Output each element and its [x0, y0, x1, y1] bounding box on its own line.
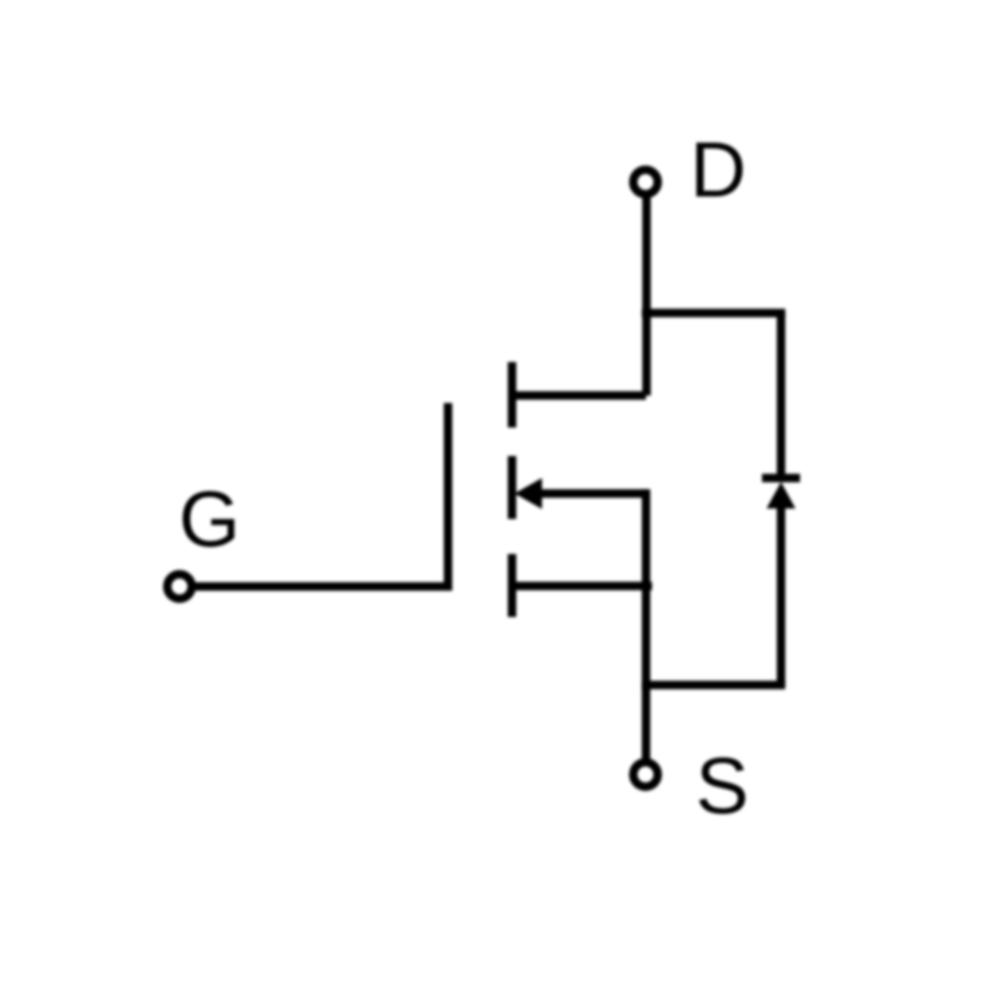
- channel segment (drain side): [508, 362, 517, 428]
- svg-text:G: G: [179, 474, 240, 563]
- wire drain bar connection: [512, 391, 646, 400]
- svg-text:D: D: [690, 126, 746, 214]
- svg-text:S: S: [696, 741, 749, 830]
- gate electrode bar and gate lead wire: [195, 403, 448, 587]
- body arrow head (points to channel): [515, 478, 543, 509]
- wire source node vertical: [642, 494, 651, 686]
- wire bottom return (diode to source node): [646, 681, 781, 690]
- wire D lead (drain vertical down to drain bar): [642, 197, 651, 396]
- diode cathode bar: [762, 474, 800, 483]
- wire drain branch to body diode: [646, 309, 781, 318]
- terminal G (gate pin circle): [167, 574, 191, 598]
- terminal S (source pin circle): [633, 762, 657, 786]
- terminal D (drain pin circle): [633, 170, 657, 194]
- transistor Q1 (N-channel MOSFET): [195, 362, 652, 617]
- channel segment (source side): [508, 554, 517, 617]
- diode anode triangle: [767, 482, 796, 509]
- body arrow line: [538, 489, 646, 498]
- wire body-diode cathode lead: [777, 313, 786, 478]
- wire body-diode anode lead: [777, 508, 786, 685]
- channel segment (body, middle): [508, 456, 517, 519]
- source bar connection: [512, 582, 652, 591]
- wire S lead: [642, 685, 651, 759]
- diode D1 (body diode): [762, 478, 800, 509]
